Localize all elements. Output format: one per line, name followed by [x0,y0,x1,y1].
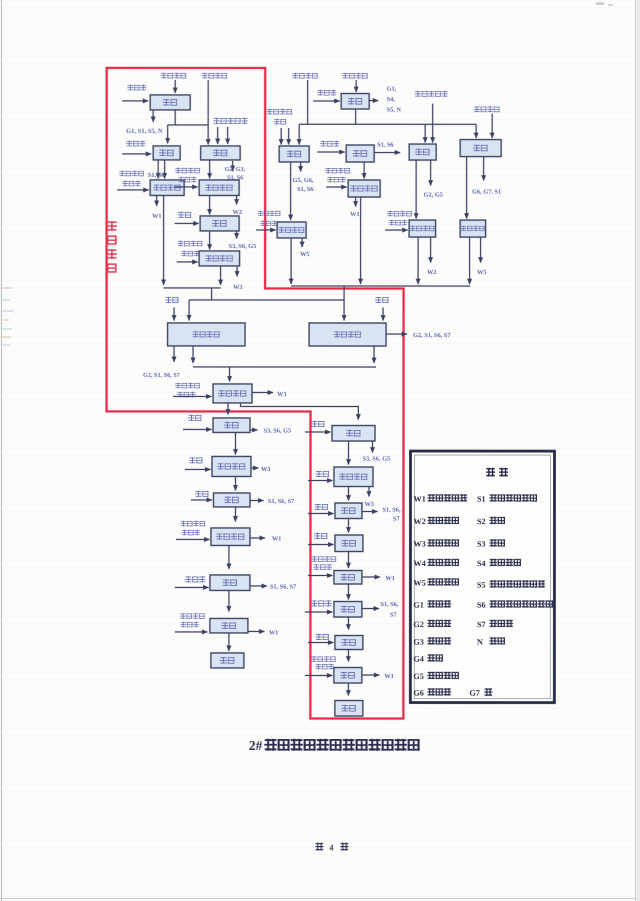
svg-text:S1, S6: S1, S6 [297,186,313,193]
svg-text:G5, G6,: G5, G6, [293,177,314,184]
svg-text:W1: W1 [413,495,425,504]
svg-text:S4,: S4, [387,96,396,103]
svg-text:S5, N: S5, N [387,107,402,114]
svg-text:S1, S6, S7: S1, S6, S7 [268,498,294,505]
svg-text:W1: W1 [350,211,359,218]
svg-text:S1, S6, S7: S1, S6, S7 [270,583,296,590]
svg-text:G2, G3,: G2, G3, [225,166,246,173]
svg-text:S7: S7 [477,620,486,629]
svg-text:W2: W2 [427,269,436,276]
svg-text:G1, S1, S5, N: G1, S1, S5, N [126,128,163,135]
svg-text:G2, G5: G2, G5 [424,192,443,199]
svg-text:W5: W5 [413,579,425,588]
svg-text:W1: W1 [152,213,161,220]
svg-text:W3: W3 [364,501,373,508]
svg-text:W3: W3 [277,391,286,398]
svg-text:4: 4 [329,843,334,853]
svg-text:S3, S6, G5: S3, S6, G5 [362,456,390,463]
svg-text:S5: S5 [477,581,486,590]
svg-text:G1: G1 [413,601,423,610]
svg-text:G4: G4 [413,655,423,664]
svg-text:S3, S6, G5: S3, S6, G5 [229,243,257,250]
svg-text:W3: W3 [233,284,242,291]
svg-text:G6, G7, S1: G6, G7, S1 [472,189,501,196]
svg-text:S1, S6: S1, S6 [377,142,393,149]
svg-text:G5: G5 [413,672,423,681]
svg-text:W2: W2 [413,517,425,526]
svg-text:N: N [477,638,483,647]
svg-text:S4: S4 [477,559,486,568]
svg-text:G1,: G1, [387,86,397,93]
svg-text:G2: G2 [413,620,423,629]
svg-text:S3, S6, G5: S3, S6, G5 [264,427,292,434]
svg-text:W3: W3 [261,466,270,473]
svg-text:W4: W4 [413,559,425,568]
svg-text:S7: S7 [390,612,397,619]
svg-text:G7: G7 [469,689,479,698]
svg-text:2#: 2# [249,738,263,753]
svg-text:S1, S6,: S1, S6, [382,507,400,514]
svg-text:S1, S6,: S1, S6, [380,601,398,608]
svg-text:S7: S7 [393,516,400,523]
svg-text:G6: G6 [413,689,423,698]
svg-text:S1, S6: S1, S6 [148,172,166,179]
svg-text:W3: W3 [413,540,425,549]
svg-text:G3: G3 [413,638,423,647]
svg-text:W1: W1 [385,575,394,582]
svg-text:W5: W5 [477,269,486,276]
svg-text:S1: S1 [477,495,486,504]
svg-text:G2, S1, S6, S7: G2, S1, S6, S7 [413,332,450,339]
svg-text:W5: W5 [300,251,309,258]
svg-text:W1: W1 [384,673,393,680]
svg-text:G2, S1, S6, S7: G2, S1, S6, S7 [143,372,180,379]
svg-text:W1: W1 [272,535,281,542]
svg-text:S2: S2 [477,517,486,526]
svg-text:W1: W1 [269,629,278,636]
svg-text:S6: S6 [477,601,486,610]
svg-text:W2: W2 [233,209,242,216]
svg-text:S3: S3 [477,540,486,549]
